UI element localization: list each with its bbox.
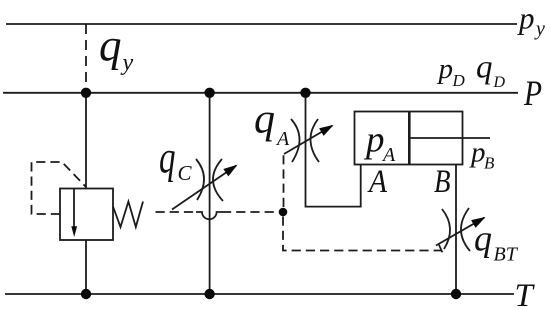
wire: port B down to tank	[455, 165, 457, 295]
svg-text:P: P	[523, 73, 542, 113]
relief valve flow arrow	[73, 189, 75, 228]
svg-text:q: q	[476, 50, 493, 86]
throttle q_A adjust arrow	[284, 126, 332, 154]
svg-text:q: q	[159, 132, 176, 182]
wire: tank line T	[5, 293, 514, 295]
relief valve spring	[113, 202, 143, 228]
throttle q_BT adjust arrow	[436, 218, 484, 246]
svg-text:B: B	[434, 164, 451, 200]
svg-text:y: y	[121, 50, 134, 76]
q_BT tail stub	[439, 245, 442, 253]
label p_B	[469, 137, 495, 173]
svg-text:q: q	[474, 219, 492, 259]
svg-text:A: A	[381, 144, 396, 166]
wire: pilot supply line p_y	[6, 23, 517, 25]
label p_A	[363, 120, 396, 166]
node T-209	[204, 289, 214, 299]
node P-305	[300, 88, 310, 98]
throttle q_C adjust arrow	[172, 166, 236, 210]
svg-text:C: C	[178, 161, 193, 185]
svg-text:A: A	[367, 164, 388, 200]
wire: relief-valve branch upper	[85, 93, 87, 189]
svg-text:p: p	[437, 53, 454, 85]
svg-text:A: A	[275, 128, 290, 150]
pilot wire junction up to q_A tail (dashed)	[283, 155, 285, 207]
throttle q_BT right arc	[461, 208, 470, 251]
cylinder rod	[409, 137, 490, 139]
throttle q_BT left arc	[442, 209, 450, 249]
label q_A	[254, 97, 290, 151]
svg-text:q: q	[254, 97, 275, 143]
label q_y	[99, 20, 134, 75]
label q_D	[476, 50, 506, 92]
relief valve body	[60, 189, 113, 241]
wire: relief-valve branch lower	[85, 240, 87, 294]
node P-86	[81, 88, 91, 98]
cylinder piston	[408, 112, 411, 165]
svg-text:q: q	[99, 20, 122, 70]
svg-text:y: y	[534, 18, 545, 40]
node T-86	[81, 289, 91, 299]
crossover hop on pilot wire	[196, 212, 222, 219]
svg-text:BT: BT	[494, 244, 519, 266]
svg-text:D: D	[493, 74, 506, 91]
throttle q_C right arc	[213, 159, 223, 201]
pilot wire from spring to junction (dashed)	[156, 211, 197, 213]
throttle q_A right arc	[310, 119, 319, 162]
node P-209	[204, 88, 214, 98]
throttle q_C left arc	[196, 159, 204, 200]
wire: q_A branch from P line	[306, 93, 361, 207]
throttle q_A left arc	[291, 119, 300, 162]
label q_C	[159, 132, 193, 185]
junction node	[279, 208, 288, 217]
wire: q_C branch vertical	[209, 93, 211, 294]
cylinder body	[355, 112, 463, 165]
svg-text:p: p	[363, 120, 385, 161]
pilot wire junction down and right to q_BT (dashed)	[283, 217, 441, 251]
relief valve pilot line (dashed)	[32, 162, 87, 214]
node T-456	[451, 289, 461, 299]
svg-text:B: B	[484, 154, 495, 173]
label p_y	[517, 0, 545, 40]
svg-text:T: T	[515, 278, 536, 310]
svg-text:D: D	[452, 71, 466, 90]
wire: pressure line P	[3, 92, 518, 94]
label p_D	[437, 53, 466, 90]
wire: q_y dashed drop from p_y line to P line	[85, 24, 87, 92]
label q_BT	[474, 219, 519, 266]
svg-text:p: p	[517, 0, 535, 35]
